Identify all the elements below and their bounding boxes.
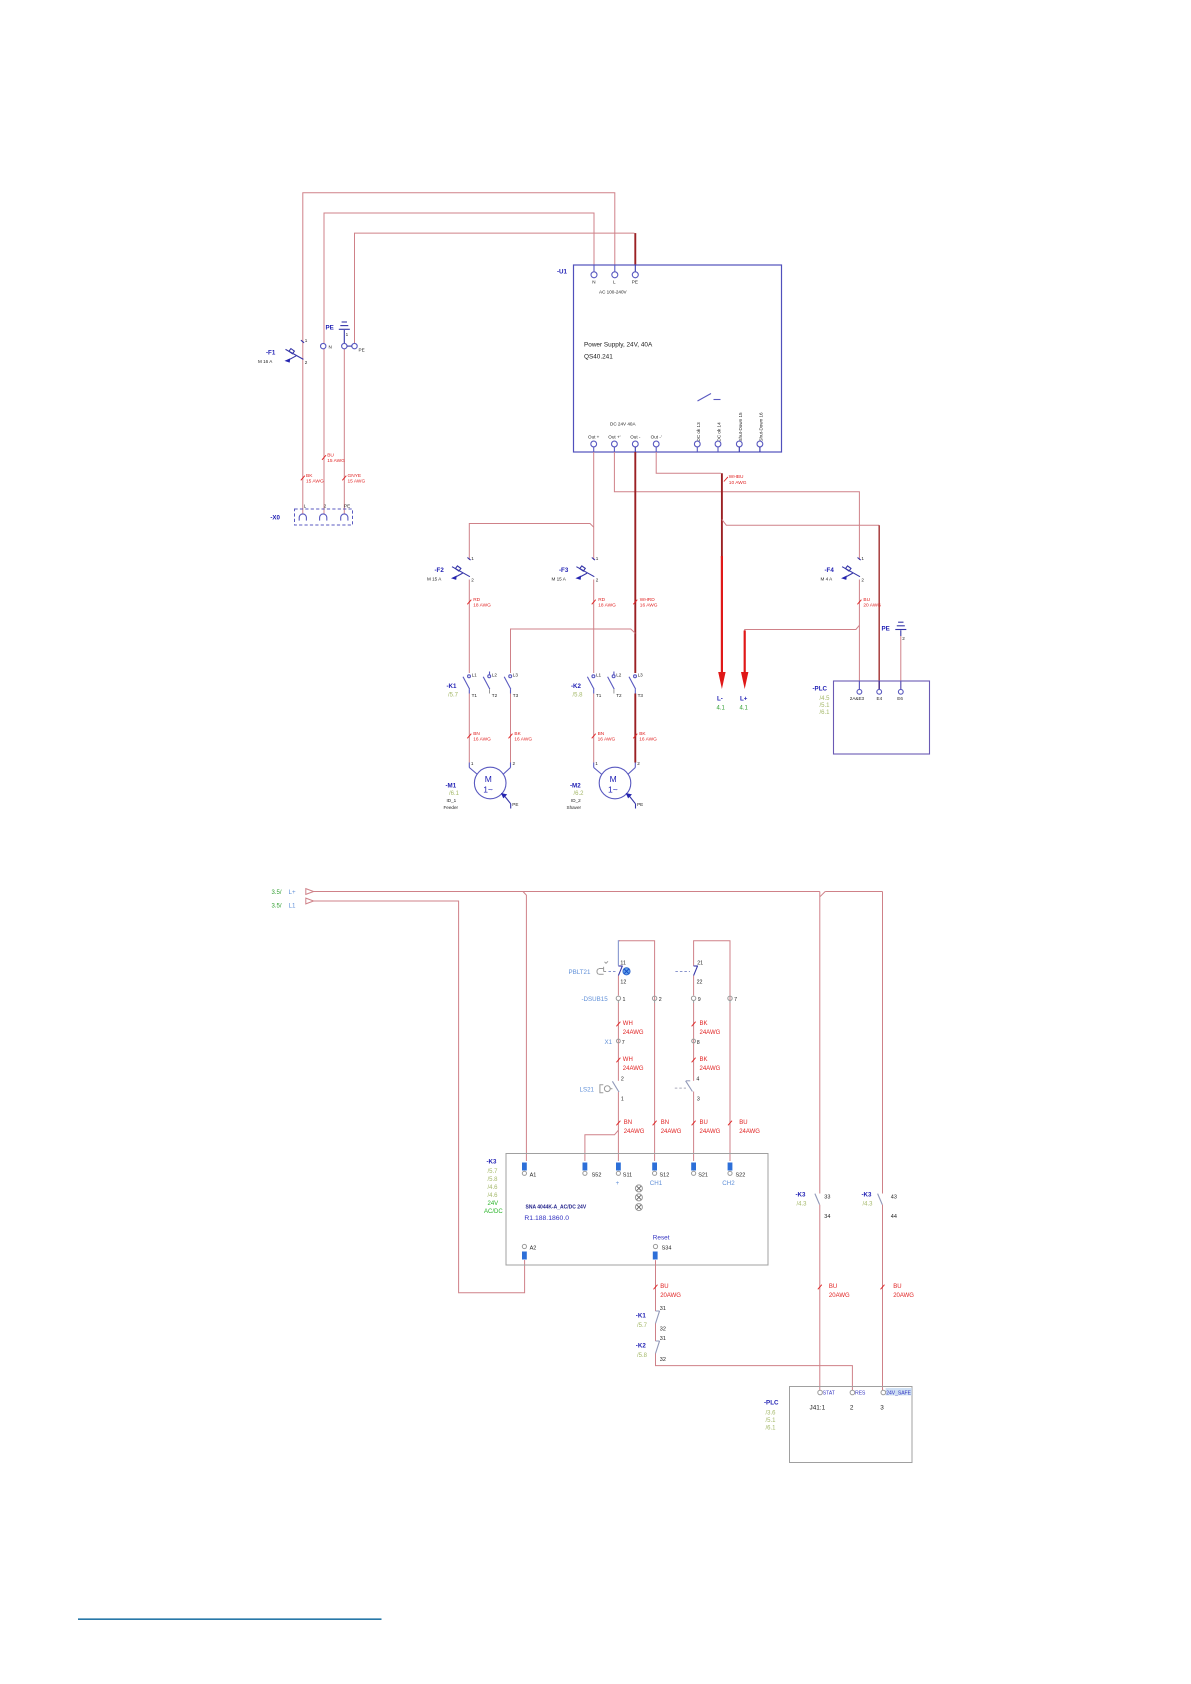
K3 terminal S34 Reset xyxy=(653,1235,672,1260)
svg-text:/5.1: /5.1 xyxy=(766,1418,777,1424)
svg-text:BU: BU xyxy=(327,452,334,458)
svg-text:Out +: Out + xyxy=(588,435,600,440)
svg-text:2: 2 xyxy=(596,578,599,583)
svg-text:DC ok 14: DC ok 14 xyxy=(717,422,722,442)
svg-text:L+: L+ xyxy=(740,696,748,703)
wire DSUB7 down chain xyxy=(729,1003,731,1161)
svg-text:1: 1 xyxy=(595,761,598,766)
svg-text:-F4: -F4 xyxy=(825,567,835,574)
svg-text:N: N xyxy=(592,280,595,285)
PLC box page1 xyxy=(813,681,930,754)
wire Out-' right and thick down to L- xyxy=(656,452,722,558)
svg-text:PE: PE xyxy=(512,802,518,807)
svg-text:3: 3 xyxy=(697,1096,700,1102)
svg-text:BN: BN xyxy=(598,731,605,737)
svg-text:BN: BN xyxy=(624,1120,632,1126)
K3 terminal S52 xyxy=(583,1163,602,1179)
svg-text:L-: L- xyxy=(717,696,723,703)
svg-text:44: 44 xyxy=(891,1214,897,1220)
svg-text:-K3: -K3 xyxy=(796,1192,807,1199)
wire label BU 24AWG (S22) xyxy=(728,1120,760,1135)
svg-text:L1: L1 xyxy=(289,903,296,910)
svg-text:T3: T3 xyxy=(638,693,644,698)
svg-text:S21: S21 xyxy=(698,1173,708,1179)
svg-text:Shaver: Shaver xyxy=(567,805,582,810)
svg-text:2: 2 xyxy=(305,360,308,365)
svg-text:2: 2 xyxy=(861,578,864,583)
wire label BU 20AWG (SAFE) xyxy=(881,1284,915,1299)
wire Out+' to F4 xyxy=(614,452,859,560)
svg-text:/6.1: /6.1 xyxy=(820,710,831,716)
connector DSUB15 pins xyxy=(582,996,738,1003)
svg-text:7: 7 xyxy=(734,997,737,1003)
footer rule xyxy=(78,1618,382,1620)
svg-text:BU: BU xyxy=(829,1284,837,1290)
svg-text:24AWG: 24AWG xyxy=(624,1129,645,1135)
svg-text:LS21: LS21 xyxy=(580,1087,595,1094)
svg-text:A2: A2 xyxy=(530,1246,537,1252)
breaker F4 xyxy=(821,556,865,583)
svg-text:24AWG: 24AWG xyxy=(661,1129,682,1135)
wire label BU 20AWG (S34) xyxy=(654,1284,682,1299)
svg-text:1: 1 xyxy=(621,1096,624,1102)
svg-text:24AWG: 24AWG xyxy=(623,1066,644,1072)
svg-text:24AWG: 24AWG xyxy=(700,1030,721,1036)
source arrow L+ xyxy=(272,889,314,896)
svg-text:WHRD: WHRD xyxy=(640,597,655,603)
wire F3 out to K2 L1 xyxy=(593,580,595,674)
ground PE 1 symbol xyxy=(326,322,350,344)
svg-text:M 4 A: M 4 A xyxy=(821,577,834,582)
svg-text:Out +': Out +' xyxy=(608,435,620,440)
svg-text:/4.3: /4.3 xyxy=(863,1202,874,1208)
wire S34 down xyxy=(655,1260,657,1311)
svg-text:BK: BK xyxy=(306,473,313,479)
svg-text:3: 3 xyxy=(880,1405,884,1412)
svg-text:/6.1: /6.1 xyxy=(449,791,460,797)
U1 top terminals N L PE xyxy=(591,265,638,295)
svg-text:/5.7: /5.7 xyxy=(488,1169,499,1175)
svg-text:DC 24V 40A: DC 24V 40A xyxy=(610,422,636,427)
svg-text:31: 31 xyxy=(660,1336,666,1342)
svg-text:/4.5: /4.5 xyxy=(820,696,831,702)
power supply U1 box xyxy=(557,265,782,452)
svg-text:32: 32 xyxy=(660,1357,666,1363)
svg-text:/6.2: /6.2 xyxy=(574,791,585,797)
svg-text:-K1: -K1 xyxy=(636,1313,647,1320)
svg-text:BN: BN xyxy=(661,1120,669,1126)
svg-text:PE: PE xyxy=(882,626,890,633)
svg-text:8: 8 xyxy=(697,1040,700,1046)
svg-text:-K2: -K2 xyxy=(636,1343,647,1350)
svg-text:1: 1 xyxy=(471,556,474,561)
svg-text:/5.8: /5.8 xyxy=(488,1177,499,1183)
svg-text:ID_1: ID_1 xyxy=(447,798,457,803)
svg-text:S22: S22 xyxy=(736,1173,746,1179)
svg-text:BU: BU xyxy=(739,1120,747,1126)
svg-text:1: 1 xyxy=(346,332,349,337)
svg-text:24AWG: 24AWG xyxy=(700,1066,721,1072)
svg-text:L3: L3 xyxy=(638,673,644,678)
svg-text:31: 31 xyxy=(660,1306,666,1312)
svg-text:L: L xyxy=(304,504,307,509)
svg-text:32: 32 xyxy=(660,1327,666,1333)
svg-text:M 16 A: M 16 A xyxy=(258,359,273,364)
svg-text:/3.6: /3.6 xyxy=(766,1411,777,1417)
svg-text:AC/DC: AC/DC xyxy=(484,1209,503,1215)
svg-text:PE: PE xyxy=(326,325,334,332)
svg-text:Shut-Down 16: Shut-Down 16 xyxy=(758,412,763,442)
svg-text:16 AWG: 16 AWG xyxy=(640,603,658,609)
svg-text:J41:1: J41:1 xyxy=(810,1405,826,1412)
wire K2 T3 to M2 (thick) xyxy=(634,694,636,763)
svg-text:16 AWG: 16 AWG xyxy=(473,737,491,743)
wire label WH 24AWG upper xyxy=(616,1021,644,1036)
svg-text:-K3: -K3 xyxy=(487,1159,498,1166)
contact PBLT21 21-22 xyxy=(675,960,703,985)
K3 terminal S22 xyxy=(722,1163,745,1188)
wire K3 43-44 to PLC 24V_SAFE xyxy=(882,1205,884,1390)
svg-text:PE: PE xyxy=(637,802,643,807)
svg-text:22: 22 xyxy=(697,980,703,986)
svg-text:L2: L2 xyxy=(492,673,498,678)
wire LS21 to branch xyxy=(617,1092,619,1161)
svg-text:16 AWG: 16 AWG xyxy=(514,737,532,743)
PLC terminal STAT J41:1 xyxy=(810,1390,835,1411)
svg-text:PE: PE xyxy=(632,280,638,285)
svg-text:1: 1 xyxy=(471,761,474,766)
svg-text:BK: BK xyxy=(700,1057,708,1063)
wire DSUB2 down chain xyxy=(654,1003,656,1161)
svg-text:WH: WH xyxy=(623,1057,633,1063)
wire label RD 18 AWG (F3) xyxy=(592,597,616,609)
svg-text:/4.6: /4.6 xyxy=(488,1193,499,1199)
svg-text:ID_2: ID_2 xyxy=(571,798,581,803)
K3 type labels xyxy=(524,1205,586,1222)
svg-text:-PLC: -PLC xyxy=(764,1400,779,1407)
svg-text:1: 1 xyxy=(861,556,864,561)
wire label BK 24AWG lower xyxy=(692,1057,721,1072)
svg-text:RD: RD xyxy=(598,597,605,603)
arrow L- xyxy=(717,556,726,712)
svg-text:BK: BK xyxy=(639,731,646,737)
PLC terminals 2A&E3 E4 E6 xyxy=(850,681,904,701)
svg-text:1~: 1~ xyxy=(483,785,493,795)
svg-text:4.1: 4.1 xyxy=(717,706,726,712)
svg-text:L1: L1 xyxy=(596,673,602,678)
K3 terminal A2 xyxy=(522,1244,536,1259)
U1 bottom terminals xyxy=(588,412,763,452)
svg-text:/6.1: /6.1 xyxy=(766,1426,777,1432)
svg-text:M 15 A: M 15 A xyxy=(552,577,567,582)
wire L net: F1 out down to X0 xyxy=(302,362,304,514)
svg-text:PE: PE xyxy=(359,348,365,353)
wire PB loop right bridge xyxy=(694,941,730,1001)
svg-text:Power Supply, 24V, 40A: Power Supply, 24V, 40A xyxy=(584,342,653,349)
svg-text:BU: BU xyxy=(660,1284,668,1290)
svg-text:T1: T1 xyxy=(472,693,478,698)
wire F2 out to K1 L1 xyxy=(468,580,470,674)
wire branch to PLC E4 xyxy=(722,520,879,690)
contact K1 31-32 xyxy=(636,1306,666,1341)
svg-text:-F2: -F2 xyxy=(435,567,445,574)
svg-text:1~: 1~ xyxy=(608,785,618,795)
wire label GNYE 15 AWG xyxy=(342,473,365,485)
wire label BU 20AWG (STAT) xyxy=(818,1284,850,1299)
svg-text:-K1: -K1 xyxy=(447,683,458,690)
limit switch LS21 xyxy=(580,1076,624,1102)
svg-text:9: 9 xyxy=(698,997,701,1003)
svg-text:33: 33 xyxy=(824,1195,830,1201)
contactor K1 xyxy=(447,672,519,699)
wire label BN 16 AWG (M2) xyxy=(592,731,616,743)
K3 terminal S11 xyxy=(616,1163,633,1188)
svg-text:43: 43 xyxy=(891,1195,897,1201)
wire PB loop left bridge xyxy=(618,941,654,1001)
contact K2 31-32 xyxy=(636,1336,666,1363)
wire label WH 24AWG lower xyxy=(616,1057,644,1072)
svg-text:15 AWG: 15 AWG xyxy=(306,479,324,485)
wire label BN 24AWG (S12) xyxy=(653,1120,682,1135)
svg-text:BK: BK xyxy=(514,731,521,737)
wire PB right lower xyxy=(693,976,695,996)
svg-text:N: N xyxy=(329,344,332,349)
wire DSUB9 down chain xyxy=(693,1003,695,1081)
svg-text:E4: E4 xyxy=(877,696,883,701)
svg-text:QS40.241: QS40.241 xyxy=(584,354,613,361)
PLC terminal 24V_SAFE 3 xyxy=(880,1388,912,1412)
svg-text:GNYE: GNYE xyxy=(348,473,362,479)
source arrow L1 xyxy=(272,898,314,909)
svg-text:M: M xyxy=(610,774,617,784)
U1 main text xyxy=(584,342,653,361)
svg-text:X1: X1 xyxy=(605,1039,613,1046)
svg-text:/5.8: /5.8 xyxy=(573,693,584,699)
svg-text:2A&E3: 2A&E3 xyxy=(850,696,865,701)
svg-text:BK: BK xyxy=(700,1021,708,1027)
wire Out- branch to K1 L3 xyxy=(511,629,636,673)
breaker F1 xyxy=(258,338,308,365)
svg-text:L: L xyxy=(613,280,616,285)
svg-text:BU: BU xyxy=(700,1120,708,1126)
svg-text:M: M xyxy=(485,774,492,784)
svg-text:18 AWG: 18 AWG xyxy=(598,603,616,609)
svg-text:SNA 4044K-A_AC/DC 24V: SNA 4044K-A_AC/DC 24V xyxy=(526,1205,587,1211)
svg-text:24V: 24V xyxy=(488,1201,499,1207)
K3 terminal A1 xyxy=(522,1163,536,1179)
svg-text:T2: T2 xyxy=(492,693,498,698)
svg-text:2: 2 xyxy=(902,636,905,641)
wire K3 33-34 to PLC STAT xyxy=(819,1205,821,1390)
svg-text:4.1: 4.1 xyxy=(740,706,749,712)
svg-text:L2: L2 xyxy=(616,673,622,678)
svg-text:DC ok 13: DC ok 13 xyxy=(696,422,701,442)
wire label BU 20 AWG (F4) xyxy=(857,597,881,609)
svg-text:-M2: -M2 xyxy=(570,783,581,790)
svg-text:L+: L+ xyxy=(289,889,296,896)
svg-text:STAT: STAT xyxy=(823,1391,835,1397)
svg-text:4: 4 xyxy=(696,1076,699,1082)
connector X1 pins 7 8 xyxy=(605,1039,700,1046)
svg-text:Shut-Down 15: Shut-Down 15 xyxy=(738,412,743,442)
K3 terminal S12 xyxy=(650,1163,669,1188)
svg-text:Out -: Out - xyxy=(630,435,641,440)
pushbutton PBLT21 xyxy=(569,960,631,985)
svg-text:M 15 A: M 15 A xyxy=(427,577,442,582)
ground PE 2 xyxy=(882,622,907,689)
svg-text:/5.7: /5.7 xyxy=(448,693,459,699)
svg-text:CH1: CH1 xyxy=(650,1180,663,1187)
K3 terminal S21 xyxy=(691,1163,708,1179)
wire label BU 15 AWG xyxy=(322,452,345,464)
svg-text:T2: T2 xyxy=(616,693,622,698)
svg-text:2: 2 xyxy=(659,997,662,1003)
svg-text:BU: BU xyxy=(863,597,870,603)
svg-text:Reset: Reset xyxy=(653,1235,670,1242)
svg-text:2: 2 xyxy=(850,1405,854,1412)
wire label WHRD 16 AWG (Out-) xyxy=(633,597,657,609)
K3 indicator lamps xyxy=(635,1185,642,1211)
breaker F2 xyxy=(427,556,474,583)
svg-text:L3: L3 xyxy=(513,673,519,678)
svg-text:/5.1: /5.1 xyxy=(820,703,831,709)
svg-text:-F1: -F1 xyxy=(266,350,276,357)
PLC terminal RES 2 xyxy=(850,1390,866,1411)
svg-text:2: 2 xyxy=(637,761,640,766)
svg-text:PBLT21: PBLT21 xyxy=(569,969,591,976)
wire PE net: junction to X0 xyxy=(343,349,345,514)
wire K1 T1 to M1 xyxy=(468,694,470,763)
svg-text:R1.188.1860.0: R1.188.1860.0 xyxy=(524,1215,569,1222)
wire label WHBU 10 AWG xyxy=(724,474,747,486)
wire L1 to A2 xyxy=(314,901,525,1293)
wire Out+ down with branch to F2 xyxy=(469,452,593,560)
svg-text:+: + xyxy=(616,1180,620,1187)
wire branch to S52 xyxy=(585,1130,619,1161)
svg-text:T3: T3 xyxy=(513,693,519,698)
svg-text:/5.7: /5.7 xyxy=(637,1323,648,1329)
contact 4-3 (right pole) xyxy=(675,1076,700,1102)
svg-text:-U1: -U1 xyxy=(557,269,568,276)
PLC box page2 xyxy=(764,1387,912,1463)
node PE junction circles xyxy=(342,343,365,352)
motor M1 xyxy=(444,761,519,810)
svg-text:3.5/: 3.5/ xyxy=(272,904,282,910)
svg-text:2: 2 xyxy=(324,504,327,509)
wire PB left lower xyxy=(617,976,619,996)
contactor K2 xyxy=(571,672,643,699)
svg-text:12: 12 xyxy=(620,980,626,986)
svg-text:24AWG: 24AWG xyxy=(623,1030,644,1036)
svg-text:-DSUB15: -DSUB15 xyxy=(582,996,609,1003)
svg-text:BU: BU xyxy=(893,1284,901,1290)
svg-text:11: 11 xyxy=(620,960,626,966)
svg-text:2: 2 xyxy=(513,761,516,766)
svg-text:L1: L1 xyxy=(472,673,478,678)
svg-text:-X0: -X0 xyxy=(270,515,280,522)
svg-text:RD: RD xyxy=(473,597,480,603)
motor M2 xyxy=(567,761,644,810)
svg-text:3.5/: 3.5/ xyxy=(272,890,282,896)
svg-text:-M1: -M1 xyxy=(446,783,457,790)
svg-text:1: 1 xyxy=(305,338,308,343)
wire K1 T3 to M1 xyxy=(510,694,512,763)
wire Out- thick down to K2 L3 xyxy=(634,452,636,673)
svg-text:15 AWG: 15 AWG xyxy=(348,479,366,485)
arrow L+ xyxy=(740,631,749,712)
terminal block X0 xyxy=(270,504,352,526)
svg-text:-K2: -K2 xyxy=(571,683,582,690)
wire label BK 15 AWG xyxy=(301,473,324,485)
svg-text:S52: S52 xyxy=(592,1173,602,1179)
svg-text:/4.3: /4.3 xyxy=(797,1202,808,1208)
wire N net xyxy=(324,213,594,514)
svg-text:S11: S11 xyxy=(623,1173,632,1179)
svg-text:20 AWG: 20 AWG xyxy=(863,603,881,609)
svg-text:24AWG: 24AWG xyxy=(700,1129,721,1135)
svg-text:18 AWG: 18 AWG xyxy=(473,603,491,609)
svg-text:2: 2 xyxy=(621,1076,624,1082)
wire K2 T1 to M2 xyxy=(593,694,595,763)
wire label RD 18 AWG (F2) xyxy=(467,597,491,609)
wire label BN 24AWG (S11) xyxy=(616,1120,644,1135)
wire label BK 16 AWG (M1) xyxy=(509,731,533,743)
svg-text:21: 21 xyxy=(697,960,703,966)
wire F4 out: down, branch to L+ xyxy=(745,580,860,690)
svg-text:Feeder: Feeder xyxy=(444,805,459,810)
svg-text:E6: E6 xyxy=(897,696,903,701)
svg-text:24AWG: 24AWG xyxy=(739,1129,760,1135)
svg-text:1: 1 xyxy=(596,556,599,561)
svg-text:16 AWG: 16 AWG xyxy=(598,737,616,743)
svg-text:7: 7 xyxy=(622,1040,625,1046)
wire DSUB1 down chain xyxy=(617,1003,619,1081)
svg-text:/4.6: /4.6 xyxy=(488,1185,499,1191)
svg-text:24V_SAFE: 24V_SAFE xyxy=(886,1391,911,1397)
wire label BN 16 AWG (M1) xyxy=(467,731,491,743)
breaker F3 xyxy=(552,556,599,583)
svg-text:16 AWG: 16 AWG xyxy=(639,737,657,743)
contact K3 43-44 xyxy=(862,1192,897,1221)
node N terminal circle xyxy=(321,343,332,349)
wire contact3 down xyxy=(693,1092,695,1162)
svg-text:-PLC: -PLC xyxy=(813,686,828,693)
wire PE net (horizontal + thick drop to U1 PE) xyxy=(355,233,636,343)
svg-text:34: 34 xyxy=(824,1214,830,1220)
svg-text:15 AWG: 15 AWG xyxy=(327,458,345,464)
svg-text:1: 1 xyxy=(623,997,626,1003)
wire label BK 24AWG upper xyxy=(692,1021,721,1036)
svg-text:WH: WH xyxy=(623,1021,633,1027)
svg-text:CH2: CH2 xyxy=(722,1180,735,1187)
wire L+ rail xyxy=(314,892,883,1194)
svg-text:10 AWG: 10 AWG xyxy=(729,480,747,486)
svg-text:2: 2 xyxy=(471,578,474,583)
svg-text:/5.8: /5.8 xyxy=(637,1353,648,1359)
svg-text:Out -': Out -' xyxy=(651,435,662,440)
wire S34 chain to PLC RES xyxy=(656,1354,853,1391)
svg-text:T1: T1 xyxy=(596,693,602,698)
svg-text:PE: PE xyxy=(344,504,350,509)
svg-text:-K3: -K3 xyxy=(862,1192,873,1199)
svg-text:20AWG: 20AWG xyxy=(893,1293,914,1299)
svg-text:20AWG: 20AWG xyxy=(829,1293,850,1299)
svg-text:S12: S12 xyxy=(660,1173,670,1179)
wire label BK 16 AWG (M2) xyxy=(633,731,657,743)
svg-text:A1: A1 xyxy=(530,1173,537,1179)
svg-text:AC 100-240V: AC 100-240V xyxy=(599,290,628,295)
svg-text:20AWG: 20AWG xyxy=(660,1293,681,1299)
